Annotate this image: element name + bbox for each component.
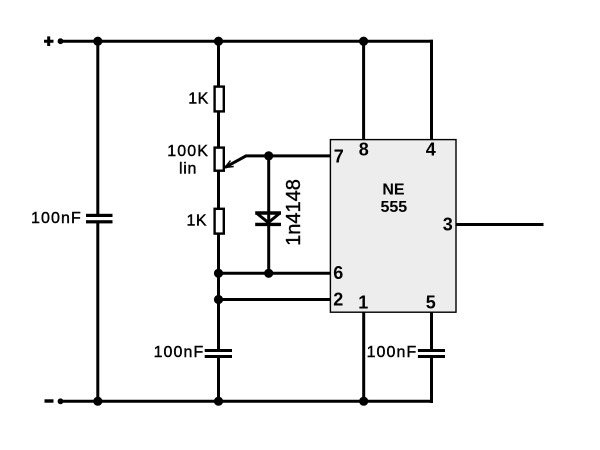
IC U1 NE555 body xyxy=(330,140,456,313)
resistor R2 1K xyxy=(215,209,224,234)
junction pin2 middle xyxy=(214,295,223,304)
svg-text:100nF: 100nF xyxy=(367,344,418,361)
wire middle branch: rail to R1 xyxy=(217,40,220,87)
wire P1 to R2 xyxy=(217,171,220,210)
wire node pin2 to cap C2 xyxy=(217,300,220,350)
diode D1 1n4148 xyxy=(255,213,281,224)
resistor R1 1K xyxy=(215,87,224,112)
wire pin2 horizontal xyxy=(219,298,331,301)
junction top pin8 xyxy=(359,37,368,46)
terminal plus symbol xyxy=(44,36,54,46)
wire left branch upper (to cap C1 top) xyxy=(96,40,99,215)
wire pin5 to cap C3 xyxy=(430,312,433,350)
svg-text:4: 4 xyxy=(426,140,436,160)
capacitor C2 100nF xyxy=(205,349,232,358)
wire diode branch vertical xyxy=(267,156,270,275)
wire R2 to node pin2 xyxy=(217,233,220,301)
wire cap C3 to bottom rail xyxy=(430,356,433,403)
wire P1 wiper to pin7 xyxy=(225,156,331,168)
wire top supply rail xyxy=(58,40,433,43)
wire pin4 drop from top rail xyxy=(430,40,433,140)
wire bottom supply rail xyxy=(58,400,433,403)
terminal dot plus xyxy=(58,38,64,44)
wire left branch lower (cap C1 bottom to rail) xyxy=(96,221,99,403)
capacitor C3 100nF xyxy=(418,349,445,358)
terminal minus symbol xyxy=(45,399,54,402)
junction bottom-left xyxy=(93,397,102,406)
wire pin6 horizontal xyxy=(219,272,331,275)
svg-text:100nF: 100nF xyxy=(31,210,82,227)
svg-text:100nF: 100nF xyxy=(154,344,205,361)
junction wiper node xyxy=(264,151,273,160)
svg-text:1K: 1K xyxy=(188,91,209,108)
wire pin3 output xyxy=(457,223,544,226)
wire cap C2 to bottom rail xyxy=(217,356,220,403)
svg-text:7: 7 xyxy=(334,147,344,167)
terminal dot minus xyxy=(58,398,64,404)
svg-text:5: 5 xyxy=(426,293,436,313)
svg-text:1n4148: 1n4148 xyxy=(283,179,305,246)
wire pin8 drop from top rail xyxy=(362,41,365,139)
junction top-left xyxy=(93,37,102,46)
junction pin6 diode xyxy=(264,269,273,278)
junction pin6 middle xyxy=(214,269,223,278)
capacitor C1 100nF xyxy=(86,214,113,224)
svg-text:1: 1 xyxy=(358,293,368,313)
svg-text:lin: lin xyxy=(179,160,197,177)
svg-text:6: 6 xyxy=(333,263,343,283)
arrowhead P1 wiper xyxy=(225,161,234,168)
junction bottom-middle xyxy=(214,397,223,406)
junction top-middle xyxy=(214,37,223,46)
svg-text:555: 555 xyxy=(380,199,407,216)
wire R1 to P1 xyxy=(217,111,220,148)
svg-text:3: 3 xyxy=(443,214,453,234)
svg-text:NE: NE xyxy=(382,182,405,199)
potentiometer P1 100K body xyxy=(215,148,224,171)
wire pin1 to bottom rail xyxy=(362,312,365,403)
svg-text:1K: 1K xyxy=(187,213,208,230)
junction bottom pin1 xyxy=(359,397,368,406)
svg-text:8: 8 xyxy=(359,140,369,160)
svg-text:2: 2 xyxy=(333,290,343,310)
svg-text:100K: 100K xyxy=(167,143,209,160)
